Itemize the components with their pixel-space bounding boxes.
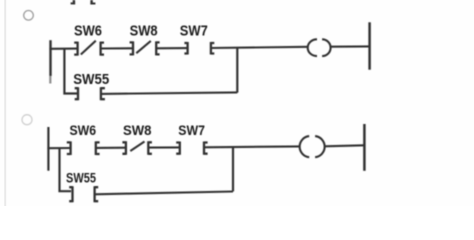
wire SW8 to SW7 (148, 146, 180, 148)
branch junction vertical (right) rung 2 (232, 147, 234, 192)
wire coil to right rail (324, 145, 364, 146)
coil CR2 left paren (300, 136, 310, 157)
wire rail to SW6 (49, 48, 77, 50)
svg-text:SW6: SW6 (70, 123, 97, 138)
partial contact remnant (left bracket) from cropped diagram above (71, 0, 76, 4)
wire SW6 to SW8 (101, 47, 133, 49)
contact SW6 right bracket (96, 141, 100, 155)
svg-text:SW8: SW8 (130, 24, 158, 40)
contact SW7 right bracket (211, 42, 214, 55)
wire SW8 to SW7 (156, 47, 187, 49)
svg-text:SW7: SW7 (180, 23, 208, 39)
partial contact remnant (right bracket) from cropped diagram above (90, 0, 95, 5)
svg-text:SW6: SW6 (74, 24, 102, 40)
contact SW55 right bracket (101, 87, 105, 100)
svg-text:SW8: SW8 (123, 123, 152, 138)
branch wire down-left (SW55 branch) (64, 49, 77, 94)
svg-text:SW55: SW55 (66, 170, 96, 185)
branch junction vertical (right) rung 1 (236, 47, 238, 92)
coil CR1 left paren (308, 39, 317, 56)
contact SW55 left bracket rung 2 (69, 186, 72, 202)
coil CR1 right paren (322, 39, 331, 56)
right power rail rung 2 (363, 124, 366, 171)
contact SW55 left bracket (75, 87, 78, 100)
branch wire SW55 to junction (101, 92, 237, 94)
right power rail rung 1 (368, 22, 371, 69)
contact SW6 (NO) left bracket (67, 141, 71, 155)
contact SW7 (NO) left bracket (176, 142, 180, 155)
branch wire SW55 to junction rung 2 (95, 192, 233, 195)
contact SW55 right bracket rung 2 (95, 186, 99, 202)
contact SW8 right bracket (148, 141, 152, 155)
contact SW6 (NC) left bracket (74, 42, 77, 56)
contact SW8 right bracket (156, 41, 159, 55)
wire coil to right rail (331, 45, 370, 47)
page margin line (4, 0, 6, 206)
wire SW6 to SW8 (96, 147, 126, 149)
svg-text:SW55: SW55 (73, 72, 109, 88)
coil CR2 right paren (315, 136, 325, 157)
contact SW8 (NC) left bracket (130, 41, 133, 55)
radio button option 2 (22, 115, 32, 125)
left power rail rung 2 (47, 127, 49, 171)
contact SW8 slash (130, 142, 144, 152)
contact SW8 slash (136, 41, 151, 53)
wire SW7 to coil (211, 47, 309, 48)
contact SW8 (NC) left bracket (122, 141, 126, 155)
contact SW7 (NO) left bracket (184, 42, 187, 55)
contact SW6 slash (81, 41, 96, 55)
contact SW6 right bracket (101, 42, 104, 56)
branch wire down-left (SW55 branch) rung 2 (60, 148, 72, 191)
left power rail rung 1 (49, 40, 51, 76)
radio button option 1 (24, 11, 34, 21)
wire SW7 to coil (204, 145, 300, 148)
contact SW7 right bracket (204, 142, 208, 155)
wire rail to SW6 (47, 147, 70, 149)
svg-text:SW7: SW7 (178, 123, 205, 138)
